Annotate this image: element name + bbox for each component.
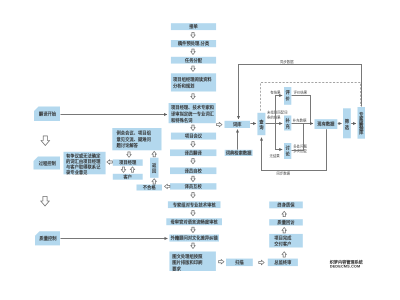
node 扫描 [226, 259, 253, 267]
svg-text:交付客户: 交付客户 [274, 241, 291, 248]
svg-text:条的结果: 条的结果 [267, 114, 281, 119]
node 图文处理组按照图片排版和印刷要求 [169, 252, 216, 273]
node 译员自校 [170, 167, 216, 174]
svg-text:和特殊名词: 和特殊名词 [171, 117, 193, 124]
svg-text:任务分配: 任务分配 [184, 57, 203, 64]
svg-text:稿件预处理.分类: 稿件预处理.分类 [178, 40, 210, 47]
svg-text:项目经理、技术专家和: 项目经理、技术专家和 [171, 104, 214, 111]
big arrow 过程控制 -> 质量控制 [41, 196, 50, 206]
svg-text:译员翻译: 译员翻译 [185, 149, 203, 156]
node 总监终审 [268, 259, 298, 267]
arrow 质量回访 -> 终身质保 [282, 211, 286, 216]
svg-text:补: 补 [284, 117, 290, 124]
arrow 不合格 -> 返回 [152, 179, 156, 184]
arrow 译员互校 -> 不合格 [165, 184, 170, 188]
svg-text:译员自校: 译员自校 [185, 167, 203, 174]
arrow 拟定词汇 -> 词库 [217, 122, 222, 126]
node 接单 [171, 23, 216, 30]
svg-text:讨: 讨 [285, 145, 290, 152]
svg-text:未找到匹配词: 未找到匹配词 [267, 110, 288, 115]
node 专家组对专业技术审核 [168, 201, 221, 208]
node 稿件预处理分类 [171, 40, 216, 47]
node 母语审核官对语言润色审校 [166, 218, 222, 225]
arrow 总监终审 -> 项目完成 [282, 252, 286, 257]
wire branch -> 评价 (有结果) [276, 96, 283, 124]
wire 筛选 -> 专家级数据库 [351, 123, 356, 125]
node 项目组经理阅读资料分析和规划 [171, 73, 216, 91]
dashed wire 查询 -> 专家级数据库 [261, 83, 361, 111]
arrow 预处理 -> 任务分配 [191, 49, 195, 54]
svg-text:论: 论 [285, 151, 290, 158]
svg-text:外籍顾问对文化差异纠错: 外籍顾问对文化差异纠错 [171, 235, 219, 242]
node 质量回访 [269, 219, 303, 226]
node 项目完成交付客户 [269, 234, 303, 248]
arrow 接单 -> 预处理 [191, 32, 195, 37]
svg-text:补充数据: 补充数据 [293, 117, 307, 122]
node 外籍顾问对文化差异纠错 [169, 235, 219, 242]
node 讨论 (vertical) [284, 143, 291, 159]
svg-text:例会会议、项目组: 例会会议、项目组 [117, 130, 152, 137]
svg-text:过程控制: 过程控制 [39, 160, 57, 167]
arrow 项目经理 <-> 客户 (down) [121, 167, 125, 172]
svg-text:录专业意见: 录专业意见 [66, 169, 88, 176]
node 词库 [225, 121, 251, 128]
svg-text:同步数据: 同步数据 [280, 59, 294, 64]
wire 讨论 -> 现有数据 [292, 124, 304, 151]
wire 专家级数据库 -> 词库 (同步数据 top) [239, 65, 362, 120]
node 翻译开始 (card shape) [34, 107, 60, 122]
wire 评价 -> 现有数据 [292, 96, 311, 124]
arrow 返回 -> 会议 [152, 151, 156, 156]
arrow 客户 <-> 项目经理 (up) [130, 167, 134, 172]
svg-text:评: 评 [285, 89, 290, 96]
arrow 外籍顾问 -> 图文处理 [191, 243, 195, 248]
svg-text:扫描: 扫描 [235, 259, 244, 266]
svg-text:专家组对专业技术审核: 专家组对专业技术审核 [173, 201, 217, 208]
node 任务分配 [171, 57, 216, 64]
svg-text:母审官对语言流畅度审核: 母审官对语言流畅度审核 [170, 218, 218, 225]
svg-text:项目完成: 项目完成 [274, 235, 292, 242]
arrow 图文处理 -> 扫描 [219, 260, 224, 264]
svg-text:选: 选 [345, 124, 350, 131]
big arrow 翻译开始 -> 过程控制 [41, 136, 50, 146]
svg-text:有结果: 有结果 [270, 89, 281, 94]
node 查询 (vertical) [257, 113, 265, 135]
wire 现有数据 -> 筛选 [338, 123, 342, 125]
arrow 译员自校 -> 译员互校 [191, 176, 195, 181]
svg-text:项目经理: 项目经理 [119, 159, 137, 166]
wire 词典检索数据 -> 词库 [237, 130, 239, 150]
svg-text:翻译开始: 翻译开始 [39, 111, 57, 118]
node 返回 (vertical) [150, 158, 159, 178]
arrow 母语审核 -> 外籍顾问 [191, 227, 195, 232]
arrow 任务分配 -> 阅读资料 [191, 66, 195, 71]
svg-text:分析和规划: 分析和规划 [173, 83, 195, 90]
wire 词库 -> 查询 [250, 123, 256, 125]
node 补充 (vertical) [284, 116, 291, 131]
node 有争议或无法确定的词汇由项目经理与客户取得联系记录专业意见 [64, 152, 106, 176]
node 终身质保 [269, 202, 303, 209]
svg-text:质量控制: 质量控制 [39, 235, 57, 242]
svg-text:回: 回 [152, 168, 157, 175]
svg-text:图文处理组按照: 图文处理组按照 [172, 253, 203, 260]
svg-text:终身质保: 终身质保 [277, 202, 295, 209]
svg-text:多处问题: 多处问题 [293, 143, 307, 148]
arrow 阅读资料 -> 拟定词汇 [191, 94, 195, 99]
svg-text:题讨论解答: 题讨论解答 [117, 142, 139, 149]
svg-text:项目会议: 项目会议 [185, 133, 203, 140]
arrow 项目完成 -> 质量回访 [282, 228, 286, 233]
watermark 织梦内容管理系统 DEDECMS.COM [330, 258, 364, 268]
svg-text:译审拟定统一专业词汇: 译审拟定统一专业词汇 [171, 111, 215, 118]
node 项目会议 [171, 133, 216, 140]
arrow 项目经理 -> 有争议词汇 box [107, 160, 112, 164]
wire 质量控制 -> 外籍顾问审校 box [61, 238, 168, 240]
svg-text:词库: 词库 [233, 121, 242, 128]
wire 查询 -> 补充 (未找到匹配词条的结果) [266, 123, 283, 125]
svg-text:要求: 要求 [172, 265, 181, 272]
node 现有数据 [315, 119, 338, 129]
svg-text:充: 充 [285, 123, 290, 130]
svg-text:图片排版和印刷: 图片排版和印刷 [172, 259, 203, 266]
node 筛选 (vertical) [343, 108, 351, 138]
node 词典检索数据 [225, 150, 253, 157]
svg-text:现有数据: 现有数据 [317, 121, 335, 128]
arrow 扫描 -> 总监终审 [259, 260, 264, 264]
wire 翻译开始 -> 项目经理拟定词汇 box [61, 114, 168, 116]
svg-text:无结果: 无结果 [270, 153, 281, 158]
node 质量控制 (card shape) [35, 231, 60, 245]
node 例会会议、项目组意见交流、疑难问题讨论解答 [112, 128, 161, 150]
arrow 会议 -> 项目经理 [127, 152, 131, 157]
wire 补充 -> 现有数据 [292, 123, 313, 125]
node 客户 [113, 173, 143, 180]
svg-text:译员互校: 译员互校 [185, 183, 203, 190]
svg-text:词典检索数据: 词典检索数据 [226, 150, 252, 157]
node 译员翻译 [170, 149, 216, 156]
arrow 项目会议 -> 译员翻译 [191, 142, 195, 147]
arrow 拟定词汇 -> 项目会议 [191, 125, 195, 130]
node 项目经理 [113, 159, 143, 166]
node 不合格 [137, 184, 163, 191]
node 评价 (vertical) [284, 87, 291, 105]
arrow 专家组审核 -> 母语审核 [191, 210, 195, 215]
svg-text:评价结果: 评价结果 [294, 89, 308, 94]
node 过程控制 (card shape) [34, 157, 61, 170]
node 专家级数据库 (vertical) [358, 107, 366, 139]
node 项目经理、技术专家和译审拟定统一专业词汇和特殊名词 [169, 103, 216, 124]
svg-text:项目组经理阅读资料: 项目组经理阅读资料 [173, 76, 212, 83]
svg-text:询: 询 [259, 124, 264, 131]
svg-text:不合格: 不合格 [143, 184, 157, 191]
svg-text:总监终审: 总监终审 [274, 259, 292, 266]
node 译员互校 [170, 183, 216, 190]
arrow 译员翻译 -> 译员自校 [191, 158, 195, 163]
wire branch -> 讨论 (无结果) [276, 124, 283, 150]
svg-text:意见交流、疑难问: 意见交流、疑难问 [117, 136, 151, 143]
svg-text:客户: 客户 [122, 173, 132, 180]
arrow 译员互校 -> 专家组审核 [191, 192, 195, 197]
svg-text:DEDECMS.COM: DEDECMS.COM [330, 263, 361, 268]
svg-text:库: 库 [359, 129, 364, 136]
wire 现有数据 -> 查询 (同步数据 bottom) [262, 129, 327, 170]
svg-text:同步数据: 同步数据 [277, 171, 291, 176]
svg-text:接单: 接单 [189, 23, 198, 30]
svg-text:质量回访: 质量回访 [277, 219, 295, 226]
